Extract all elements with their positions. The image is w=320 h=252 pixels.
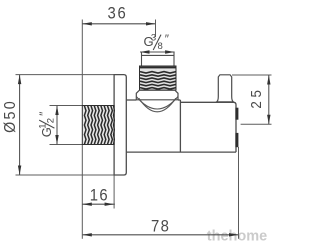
watermark thehome bbox=[207, 228, 267, 245]
svg-text:78: 78 bbox=[151, 218, 170, 236]
pipe tip of G3/8 outlet bbox=[142, 52, 175, 67]
arrow O50 top bbox=[18, 75, 21, 85]
label G1/2" bbox=[37, 111, 57, 137]
wire: dim 25 line bbox=[268, 75, 270, 124]
svg-text:″: ″ bbox=[37, 111, 51, 116]
arrow 25 top bbox=[267, 75, 270, 85]
thread G3/8 male outlet bbox=[140, 66, 177, 90]
wire: dim G1/2 extension top bbox=[50, 105, 84, 107]
svg-text:″: ″ bbox=[165, 32, 170, 46]
wire: left shared extension line bbox=[81, 20, 83, 106]
arrow 78 right bbox=[229, 233, 239, 236]
valve body barrel left section bbox=[126, 100, 236, 152]
valve body barrel right section bbox=[180, 102, 236, 152]
collar under outlet thread bbox=[136, 90, 178, 100]
wire: dim O50 extension top bbox=[16, 74, 115, 76]
arrow 36 right bbox=[146, 22, 156, 25]
arrow 16 left bbox=[82, 203, 92, 206]
wire: dim 16 right extension bbox=[113, 175, 115, 209]
thread G1/2 male inlet bbox=[82, 106, 114, 145]
svg-text:Ø50: Ø50 bbox=[3, 99, 20, 133]
svg-text:thehome: thehome bbox=[207, 229, 267, 245]
arrow 36 left bbox=[82, 22, 92, 25]
end cap flats bbox=[235, 108, 238, 148]
wire: dim O50 extension bottom bbox=[16, 174, 115, 176]
arrow 78 left bbox=[82, 233, 92, 236]
svg-text:2: 2 bbox=[46, 118, 57, 123]
wire: dim 78 line bbox=[82, 234, 238, 236]
svg-text:3: 3 bbox=[151, 33, 156, 44]
wire: dim 36 right extension bbox=[155, 20, 157, 38]
svg-text:25: 25 bbox=[247, 86, 264, 108]
wire: dim G1/2 line bbox=[56, 106, 58, 145]
wire: dim 25 extension top bbox=[232, 74, 272, 76]
arrow G3/8 right bbox=[165, 50, 175, 53]
wire: dim G3/8 line bbox=[140, 51, 175, 53]
stem bbox=[217, 75, 234, 102]
wire: dim 78 right extension bbox=[238, 147, 240, 239]
wire: dim 25 extension bottom bbox=[241, 123, 272, 125]
arrow G1/2 bottom bbox=[55, 135, 58, 145]
arrow 16 right bbox=[105, 203, 115, 206]
label G3/8" bbox=[144, 32, 170, 52]
arrow O50 bottom bbox=[18, 166, 21, 176]
arrow 25 bottom bbox=[267, 115, 270, 125]
svg-text:8: 8 bbox=[158, 41, 163, 52]
saddle arcs bbox=[136, 97, 178, 112]
arrow G3/8 left bbox=[140, 50, 150, 53]
wire: dim G1/2 extension bottom bbox=[50, 144, 84, 146]
wire: left shared extension line lower part bbox=[81, 145, 83, 239]
wire: dim 16 line bbox=[82, 203, 115, 205]
wire: dim 36 line bbox=[82, 23, 155, 25]
arrow G1/2 top bbox=[55, 106, 58, 116]
wire: dim O50 line bbox=[19, 75, 21, 175]
svg-text:16: 16 bbox=[90, 187, 109, 205]
flange (wall escutcheon O50) bbox=[114, 75, 126, 175]
svg-text:36: 36 bbox=[107, 5, 127, 23]
